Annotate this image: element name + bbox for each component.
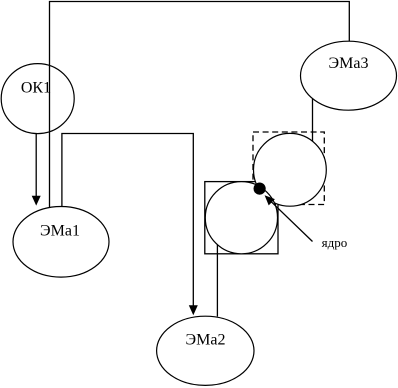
ellipse EMa2 (157, 316, 254, 385)
arrowhead into EMa2 (189, 305, 198, 315)
lower circle (in solid box) (205, 182, 277, 254)
wire: lower circle down to EMa2 (216, 243, 218, 316)
node: nucleus dot (254, 183, 266, 195)
pointer line from label to nucleus (271, 202, 312, 242)
svg-text:ЭМа2: ЭМа2 (186, 331, 226, 348)
upper circle (in dashed box) (254, 133, 327, 206)
svg-text:ядро: ядро (322, 235, 348, 250)
ellipse EMa3 (301, 41, 397, 110)
arrowhead into EMa1 (32, 196, 41, 206)
pointer arrowhead (265, 195, 275, 205)
ellipse EMa1 (13, 207, 109, 278)
svg-text:ЭМа1: ЭМа1 (40, 223, 80, 240)
svg-text:ЭМа3: ЭМа3 (329, 55, 369, 72)
solid box (lower cell) (205, 182, 278, 254)
dashed box (upper cell) (253, 132, 324, 205)
op circle OK1 (1, 64, 74, 134)
wire frame: EMa1 up, across top, down to EMa3 (50, 2, 350, 208)
wire: EMa3 down to membrane circle (312, 99, 314, 144)
wire: OK1 down to EMa1 (arrow shaft) (35, 134, 37, 196)
wire: EMa1 top up, right, down to EMa2 (arrow shaft) (62, 134, 193, 306)
svg-text:ОК1: ОК1 (21, 79, 51, 96)
